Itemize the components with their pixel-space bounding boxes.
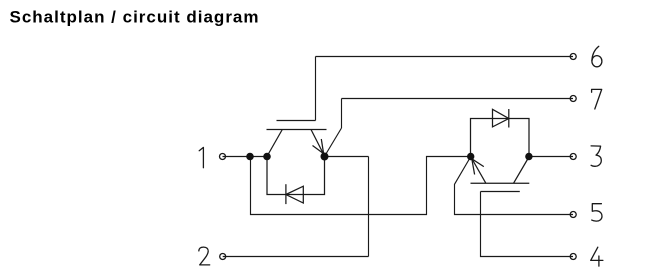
IGBT T1(left) gate bar — [277, 120, 316, 122]
IGBT T1(left) emitter arrow barb 2 — [313, 146, 324, 154]
pin label 3 — [591, 146, 601, 166]
pin label 5 — [592, 204, 602, 221]
pin label 2 — [199, 247, 210, 265]
pin label 1 — [199, 147, 203, 167]
IGBT T2(right) emitter arrow barb 1 — [472, 159, 484, 167]
wire right collector node to terminal 3 — [529, 156, 573, 158]
node T1 emitter — [321, 153, 329, 161]
IGBT T2(right) channel bar — [471, 182, 530, 184]
diode D1 triangle (points left) — [286, 186, 303, 203]
IGBT T1(left) emitter arrow barb 1 — [321, 139, 323, 154]
IGBT T1(left) channel bar — [267, 129, 327, 131]
diode D1 cathode bar — [285, 184, 287, 204]
terminal circle 1 — [220, 154, 226, 160]
wire vertical down to terminal 2 row — [368, 157, 370, 257]
svg-text:Schaltplan / circuit diagram: Schaltplan / circuit diagram — [10, 8, 260, 27]
node T2 emitter — [467, 153, 474, 160]
IGBT T1(left) collector lead — [267, 130, 282, 157]
IGBT T2(right) emitter lead — [471, 157, 486, 183]
wire gate lead of left IGBT — [315, 57, 317, 121]
node T1 collector — [263, 153, 271, 161]
wire diode D1 branch — [267, 157, 325, 195]
wire terminal 6 to gate lead corner — [316, 56, 574, 58]
pin label 6 — [592, 46, 599, 60]
wire T1 to collector node — [223, 156, 268, 158]
terminal circle 2 — [220, 254, 226, 260]
IGBT T2(right) collector lead — [514, 157, 529, 183]
terminal circle 5 — [570, 212, 576, 218]
wire diode D2 branch — [471, 119, 530, 157]
terminal circle 7 — [570, 96, 576, 102]
pin label 7 — [592, 89, 602, 109]
node junction at pin 1 rail — [246, 153, 254, 161]
pin label 4 — [591, 247, 603, 266]
wire terminal 7 slant to emitter node — [325, 128, 342, 156]
terminal circle 6 — [570, 54, 576, 60]
wire terminal 7 vertical drop — [341, 99, 343, 129]
terminal circle 3 — [570, 154, 576, 160]
wire terminal 4 to gate lead of right IGBT — [481, 192, 574, 257]
terminal circle 4 — [570, 254, 576, 260]
IGBT T2(right) gate bar — [481, 191, 520, 193]
IGBT T1(left) emitter lead — [311, 130, 325, 157]
wire terminal 5 to aux emitter of right IGBT — [455, 157, 574, 215]
IGBT T2(right) emitter arrow barb 2 — [472, 159, 475, 175]
wire emitter node to T2 drop — [325, 156, 369, 158]
diode D2 cathode bar — [508, 109, 510, 128]
wire jog from node 1 down across and up to right emitter — [251, 157, 471, 215]
diode D2 triangle (points right) — [493, 109, 509, 127]
wire terminal 2 horizontal — [223, 256, 369, 258]
node T2 collector — [525, 153, 532, 160]
wire terminal 7 horizontal — [342, 98, 574, 100]
